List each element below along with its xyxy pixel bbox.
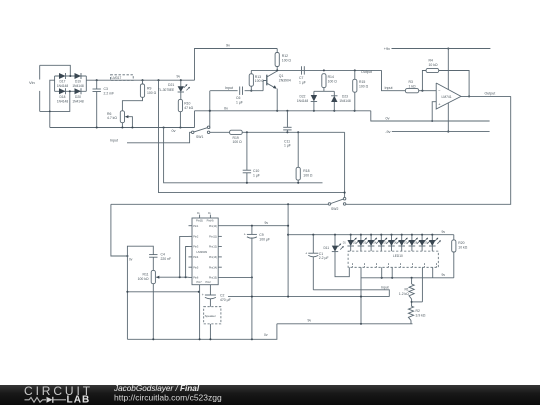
diode D17 1N4148 — [59, 73, 66, 79]
capacitor C11 1uF — [286, 111, 288, 128]
wire ground rail left — [50, 127, 195, 129]
LED D21 TL-3075EE — [180, 79, 182, 81]
diode D23 1N4148 — [331, 96, 337, 102]
wire feedback branch — [422, 71, 426, 91]
LED D11 — [334, 234, 336, 236]
switch SW2 — [328, 203, 331, 206]
wire bridge negative to ground rail — [50, 80, 55, 127]
wire SW2 output column — [287, 204, 289, 296]
resistor R20 10k — [453, 235, 455, 240]
wire R19 output node — [242, 131, 344, 133]
wire R11 wiper to IC pin — [160, 276, 189, 278]
IC U2 LM3909 — [192, 218, 218, 285]
wire R19 node down to SW2 throw — [344, 132, 346, 197]
wire LED return rail — [361, 277, 454, 279]
resistor R13 100 — [250, 70, 252, 73]
wire 9v long vertical to lower section — [157, 79, 159, 81]
wire 0v rail right — [371, 111, 490, 121]
wire bottom 0v rail A — [127, 324, 277, 340]
resistor R12 100 — [275, 53, 279, 67]
wire R9 to pot R6 — [122, 97, 142, 111]
diode D18 1N4148 — [59, 88, 66, 94]
wire source top to bridge mid-top — [40, 65, 71, 76]
svg-text:LAB: LAB — [67, 394, 91, 405]
wire op-amp V+ pin — [447, 49, 449, 90]
wire IC supply pin right to 9v node — [218, 225, 288, 227]
wire bottom 9v rail B — [277, 323, 413, 325]
wire pin jumper — [127, 291, 198, 293]
resistor R1 1.2k — [411, 278, 413, 284]
capacitor C4 220nF — [149, 254, 157, 256]
wire collector rail — [251, 69, 381, 71]
wire IC pin right lower — [218, 276, 252, 278]
capacitor C6 1uF — [239, 87, 241, 95]
capacitor C7 1uF — [301, 66, 303, 74]
capacitor C1 2.2uF — [312, 234, 314, 236]
wire 0v jog up — [194, 111, 196, 128]
LED bar diodes D1-D9 — [350, 234, 352, 236]
wire filter ground drop V2 — [164, 128, 323, 183]
wire stage output jog to op-amp input — [382, 70, 406, 90]
diode D19 1N4148 — [75, 73, 82, 79]
capacitor C3 2.2 mF — [96, 79, 98, 81]
transistor Q1 2N3904 — [266, 75, 268, 86]
wire SW1 throw to 0v rail — [209, 126, 211, 129]
wire to C4 — [127, 246, 153, 256]
wire bargraph pin drops — [360, 267, 362, 324]
wire 9v top rail to R12 — [195, 49, 278, 81]
svg-text:http://circuitlab.com/c523zgg: http://circuitlab.com/c523zgg — [114, 393, 222, 403]
wire R1-R2 junction — [411, 299, 413, 306]
wire LED supply rail — [288, 234, 454, 236]
resistor R14 100 — [322, 74, 326, 88]
node bridge AC junctions — [69, 75, 71, 77]
resistor R15 100 — [354, 70, 356, 79]
potentiometer R6 4.7k — [120, 111, 124, 123]
resistor R3 1k — [405, 89, 418, 93]
wire W1 left leg down — [111, 204, 128, 256]
wire R3 to inverting input — [419, 90, 437, 92]
resistor R2 3.9k — [408, 306, 413, 320]
wire IC pin2 left link — [180, 236, 189, 277]
wire IC bottom pin7 to rail — [199, 285, 201, 340]
wire D11 cathode to bar input — [335, 252, 349, 277]
wire long 0v return W1 — [111, 203, 328, 205]
wire input to base — [210, 90, 238, 92]
regulator LM317 dashed box — [111, 75, 134, 81]
wire R6 wiper to ground — [129, 117, 133, 128]
bridge top edge wire — [55, 75, 87, 77]
wire IC pin3 left link — [186, 247, 189, 278]
wire output down to SW2 — [346, 96, 511, 204]
wire mid vertical to bottom rail — [126, 256, 128, 339]
resistor R18 100 — [297, 132, 299, 167]
wire 0v mid rail — [195, 110, 371, 112]
wire op-amp V- pin — [447, 103, 449, 132]
resistor R19 100 — [210, 131, 230, 133]
bridge bottom edge wire — [55, 90, 87, 92]
capacitor C9 100uF — [251, 226, 253, 235]
resistor R4 10k — [426, 68, 439, 72]
diode D20 1N4148 — [75, 88, 82, 94]
AC source V1 terminals — [39, 65, 41, 79]
diode D22 1N4148 — [311, 95, 317, 102]
wire op-amp output — [461, 95, 511, 97]
wire C6 input drop to 0v and SW1 — [209, 91, 211, 126]
wire source bottom to bridge mid-bottom — [40, 91, 70, 111]
wire feedback to output — [439, 71, 469, 97]
wire non-inverting input to 0v — [432, 102, 436, 121]
logo resistor-diode squiggle — [25, 397, 47, 402]
LED bargraph LED10 dashed box — [348, 251, 438, 267]
resistor R10 47k — [180, 92, 182, 99]
wire signal input to bargraph — [313, 290, 389, 297]
wire -9v supply rail — [392, 131, 490, 133]
wire R14 to diodes — [323, 88, 325, 92]
wire R20 bottom to LED return — [453, 252, 455, 278]
capacitor C2 470uF — [209, 285, 211, 295]
wire +9v supply rail — [392, 48, 491, 50]
capacitor C10 1uF — [246, 132, 248, 170]
op-amp U1 LM741 — [436, 83, 461, 109]
wire C2 node across bottom — [228, 296, 389, 298]
wire SW1 common to input wire — [127, 132, 191, 143]
bridge right edge wire — [85, 76, 87, 91]
resistor R9 100 — [141, 79, 143, 81]
switch SW1 — [191, 131, 194, 134]
wire 9v rail from bridge — [86, 79, 194, 81]
speaker SP1 dashed box — [204, 307, 221, 324]
bridge left edge wire — [54, 76, 56, 91]
potentiometer R11 100k — [151, 270, 155, 283]
